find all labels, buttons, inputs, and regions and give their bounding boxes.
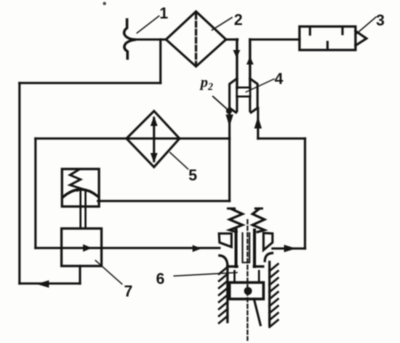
svg-text:1: 1: [160, 6, 169, 23]
svg-text:p2: p2: [199, 75, 214, 93]
svg-text:6: 6: [156, 271, 165, 288]
svg-text:5: 5: [189, 168, 198, 185]
svg-text:7: 7: [124, 284, 133, 301]
svg-text:2: 2: [234, 12, 243, 29]
svg-text:4: 4: [275, 71, 284, 88]
svg-text:3: 3: [376, 13, 385, 30]
